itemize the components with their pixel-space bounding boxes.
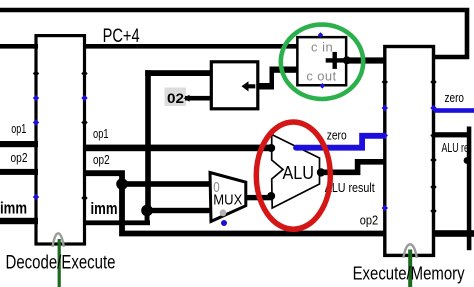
wire op2 left stub	[0, 169, 38, 175]
red ellipse around ALU	[256, 122, 330, 229]
svg-text:MUX: MUX	[213, 191, 242, 208]
svg-text:zero: zero	[327, 128, 347, 143]
junction dot ALU output	[317, 168, 325, 176]
svg-text:02: 02	[167, 90, 184, 106]
svg-text:zero: zero	[445, 90, 465, 105]
label 02 background	[165, 88, 187, 107]
svg-text:op1: op1	[11, 122, 26, 136]
MUX trapezoid	[210, 173, 246, 222]
blue node at ALU slope	[293, 145, 299, 151]
svg-text:op2: op2	[93, 153, 110, 167]
wire op1 right (to ALU top input)	[83, 145, 272, 152]
svg-text:imm: imm	[91, 199, 118, 218]
svg-text:op2: op2	[360, 214, 378, 228]
svg-text:ALU: ALU	[283, 163, 315, 183]
blue node bottom of adder	[320, 83, 326, 89]
wire top bus	[0, 10, 467, 57]
ALU polygon	[272, 135, 320, 209]
gray dot in MUX	[220, 209, 227, 216]
left arrow icon in shift box	[242, 81, 256, 91]
dots on DE register left edge	[33, 70, 39, 76]
wire imm left stub	[0, 218, 38, 224]
register DE (Decode/Execute pipeline register)	[36, 36, 85, 244]
clock caret EM register	[403, 244, 416, 257]
wire adder output to EM register	[345, 57, 386, 63]
wire imm right	[83, 220, 150, 225]
adder box	[297, 37, 346, 85]
wire MUX output to ALU	[245, 195, 272, 200]
wire op1 left stub	[0, 141, 38, 147]
register EM (Execute/Memory pipeline register)	[385, 47, 434, 256]
wire ALU result step to EM register	[319, 162, 386, 173]
dots on EM register left edge	[382, 79, 388, 85]
wire imm stub up to junction	[145, 208, 150, 222]
plus symbol	[326, 58, 344, 62]
junction dot ALU top input	[267, 144, 275, 152]
wire zero (blue) from ALU to EM register	[296, 136, 386, 148]
junction dot adder output	[343, 56, 351, 64]
green ellipse around adder	[281, 25, 363, 99]
wire 02 to shift box	[185, 96, 212, 101]
dots on DE register right edge	[81, 70, 87, 76]
wire PC+4 right segment to adder	[83, 44, 298, 49]
wire vertical shift-branch (from corner down to junction)	[145, 70, 151, 210]
wire PC+4 left segment	[0, 44, 38, 49]
arrowhead at 02	[184, 95, 190, 102]
right vertical bar (clipped next stage)	[467, 127, 472, 251]
svg-text:c in: c in	[311, 40, 333, 55]
green clock line DE	[58, 239, 61, 287]
svg-text:op1: op1	[93, 127, 109, 141]
wire zero output (blue) right of EM register	[434, 108, 474, 113]
junction dot imm/shift	[141, 205, 153, 217]
junction dot op2	[116, 178, 128, 190]
wire op2 branch to MUX input 0	[119, 181, 212, 187]
svg-text:c out: c out	[306, 68, 336, 83]
green clock line EM	[408, 250, 412, 287]
svg-text:op2: op2	[11, 151, 28, 165]
wire corner to shift box	[145, 70, 212, 76]
junction dot ALU bottom input	[267, 192, 275, 200]
wire op2 feed: right, down, bottom bus to EM register	[83, 173, 386, 233]
shift box	[211, 62, 257, 109]
wire bottom bus right of EM register	[432, 230, 474, 237]
svg-text:imm: imm	[0, 199, 27, 218]
wire ALU result to right bar	[433, 132, 469, 137]
blue node top of adder	[318, 32, 324, 38]
svg-text:Execute/Memory: Execute/Memory	[353, 263, 466, 284]
blue dot below MUX	[221, 220, 227, 226]
wire shift box output step to adder	[258, 83, 274, 90]
clock caret DE register	[53, 233, 64, 247]
dot on right bar	[464, 157, 471, 164]
dots on EM register right edge	[430, 79, 436, 85]
svg-text:Decode/Execute: Decode/Execute	[6, 253, 116, 274]
wire junction to MUX lower input	[145, 208, 212, 213]
svg-text:PC+4: PC+4	[103, 26, 140, 47]
